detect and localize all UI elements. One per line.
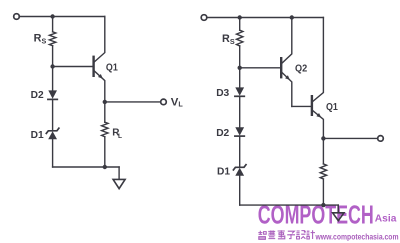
Q1 emitter arrow (right): [316, 113, 321, 118]
wire base of Q1 (left): [53, 66, 93, 68]
node: base junction dot (left): [50, 64, 54, 68]
input terminal (left circuit): [14, 14, 20, 20]
svg-text:S: S: [230, 37, 235, 46]
wire load resistor to bottom node: [322, 179, 324, 205]
svg-text:R: R: [34, 32, 42, 44]
Q1 collector lead: [94, 17, 105, 63]
wire to ground (left): [118, 167, 120, 179]
wire bottom rail (left): [53, 166, 120, 168]
wire top rail (left): [19, 16, 104, 18]
label VL: [171, 96, 184, 108]
Q2 emitter arrow: [285, 75, 290, 80]
wire from top rail to Rs: [52, 17, 54, 32]
label RL: [112, 128, 122, 141]
node: top junction dot A (right): [238, 15, 242, 19]
transistor Q2 base bar: [280, 58, 282, 77]
svg-text:D1: D1: [31, 130, 44, 141]
label RS (left): [34, 32, 47, 45]
svg-text:Q2: Q2: [295, 64, 307, 75]
zener diode D1 (right): [233, 165, 246, 170]
wire output (right): [323, 137, 377, 139]
ground (left): [113, 179, 125, 188]
Q1 emitter lead: [94, 70, 105, 102]
node: output junction dot (right): [321, 136, 325, 140]
zener diode D1 (left): [46, 128, 59, 133]
wire D3 to D2: [239, 96, 241, 127]
diode D3: [235, 87, 244, 95]
svg-text:D3: D3: [216, 88, 229, 99]
node: base junction dot (right): [238, 66, 242, 70]
wire output node to load resistor: [322, 138, 324, 164]
transistor Q1 (right) base bar: [311, 96, 313, 115]
svg-text:D1: D1: [217, 166, 230, 177]
diode D2 (right): [235, 127, 244, 135]
node: output junction dot (left): [103, 100, 107, 104]
wire Q2 emitter to Q1 base: [292, 105, 311, 107]
wire to Rs (right): [239, 18, 241, 31]
Q1 emitter arrow: [98, 74, 103, 79]
wire bottom rail (right): [240, 204, 339, 206]
svg-text:L: L: [178, 100, 183, 109]
wire output node to RL: [104, 102, 106, 122]
wire RL to bottom rail: [104, 137, 106, 167]
CJK char 2 (hui): [268, 230, 275, 238]
ground (right): [333, 213, 344, 221]
resistor RL (left): [102, 122, 108, 136]
transistor Q1 (left) base bar: [92, 57, 94, 76]
diode D2 (left): [48, 90, 57, 98]
resistor RS (left): [49, 32, 55, 46]
wire Rs to D2, with base node: [52, 46, 54, 91]
output terminal (right): [378, 136, 384, 142]
label RS (right): [222, 33, 235, 46]
svg-text:R: R: [222, 33, 230, 45]
wire D2 to D1 (right): [239, 136, 241, 167]
wire D2 to D1: [52, 99, 54, 130]
CJK char 5 (she): [296, 231, 305, 239]
resistor RS (right): [237, 30, 243, 46]
wire Rs to D3 with base node: [239, 46, 241, 87]
wire base of Q2: [240, 67, 281, 69]
wire top rail (right): [207, 17, 324, 19]
wire output VL: [105, 101, 161, 103]
wire D1 to bottom rail: [52, 139, 54, 167]
CJK char 4 (zi): [287, 231, 295, 238]
Q1 collector lead (right): [312, 18, 324, 103]
svg-text:Asia: Asia: [375, 213, 397, 224]
CJK char 1 (zhi): [258, 231, 266, 240]
svg-text:www.compotechasia.com: www.compotechasia.com: [315, 231, 399, 241]
svg-text:L: L: [118, 133, 122, 140]
svg-text:Q1: Q1: [106, 62, 118, 73]
svg-text:D2: D2: [31, 90, 44, 101]
svg-text:D2: D2: [216, 128, 229, 139]
node: top junction dot B (right): [290, 15, 294, 19]
wire to ground (right): [337, 205, 339, 213]
CJK char 6 (ji): [307, 230, 315, 239]
node: top junction dot (left): [50, 14, 54, 18]
Q2 emitter lead: [281, 72, 292, 107]
CJK char 3 (dian): [278, 230, 285, 239]
Q1 emitter lead (right): [312, 110, 324, 138]
svg-text:Q1: Q1: [326, 102, 338, 113]
node: bottom junction dot (right): [321, 203, 325, 207]
logo CJK characters (vector strokes): [258, 230, 315, 239]
node: bottom junction dot (left): [103, 165, 107, 169]
output terminal VL: [161, 99, 167, 105]
input terminal (right circuit): [201, 15, 207, 21]
svg-text:S: S: [42, 37, 47, 46]
wire D1 to bottom rail (right): [239, 176, 241, 205]
Q2 collector lead: [281, 18, 292, 64]
resistor load (right, unlabeled): [320, 164, 326, 179]
